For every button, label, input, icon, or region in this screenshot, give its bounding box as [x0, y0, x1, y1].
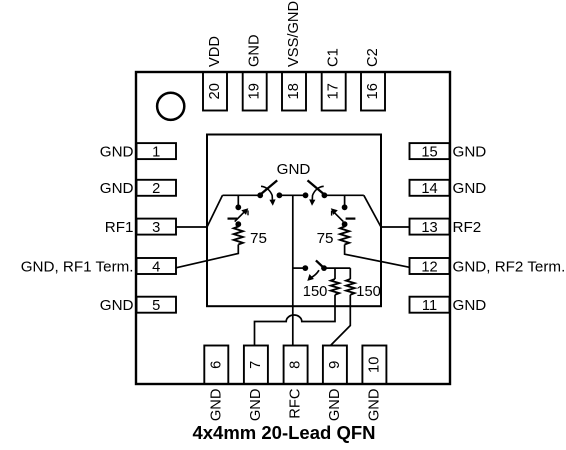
svg-text:14: 14 [421, 181, 437, 197]
wire term branch right segment [324, 267, 350, 269]
svg-text:75: 75 [250, 230, 267, 247]
wire top line RF2 side [324, 194, 363, 196]
svg-text:GND: GND [100, 180, 134, 197]
svg-text:GND, RF1 Term.: GND, RF1 Term. [21, 258, 134, 275]
shunt switch SW5 blade [316, 260, 323, 267]
series switch SW1 blade [261, 180, 277, 194]
pin 6 (GND) [204, 346, 228, 422]
svg-text:16: 16 [365, 83, 381, 99]
resistor 150 right [346, 279, 354, 295]
shunt switch SW3 blade tick [228, 218, 238, 220]
svg-text:GND: GND [277, 161, 311, 178]
resistor 75 (RF1 termination) [234, 224, 243, 244]
svg-text:GND: GND [453, 297, 487, 314]
pin 15 (GND) [410, 143, 487, 160]
svg-text:3: 3 [152, 220, 160, 236]
svg-text:GND: GND [247, 34, 263, 67]
wire term branch left segment [293, 267, 306, 269]
svg-text:VSS/GND: VSS/GND [286, 1, 302, 67]
pin 14 (GND) [410, 180, 487, 197]
svg-text:2: 2 [152, 181, 160, 197]
pin 10 (GND) [362, 346, 386, 422]
pin 13 (RF2) [410, 219, 482, 236]
wire 150 right top stub [349, 268, 351, 279]
svg-text:C2: C2 [365, 48, 381, 67]
svg-text:RF1: RF1 [105, 219, 134, 236]
pin 19 (GND) [243, 34, 267, 110]
wire top line center segment [279, 194, 305, 196]
svg-text:12: 12 [421, 259, 437, 275]
series switch SW1 arrow [261, 186, 276, 206]
svg-text:13: 13 [421, 220, 437, 236]
svg-text:RF2: RF2 [453, 219, 482, 236]
svg-text:GND: GND [366, 389, 382, 422]
shunt switch SW3 (RF1 term) contacts [235, 204, 241, 227]
svg-text:11: 11 [422, 298, 437, 314]
svg-text:5: 5 [152, 298, 160, 314]
shunt switch SW4 arrow [331, 208, 344, 221]
svg-text:GND: GND [248, 389, 264, 422]
wire right shunt drop [344, 195, 346, 207]
pin 2 (GND) [100, 180, 176, 197]
pin 5 (GND) [100, 297, 176, 314]
pin 18 (VSS/GND) [282, 1, 306, 111]
svg-text:18: 18 [286, 83, 302, 99]
inner die boundary [207, 135, 381, 307]
pin 11 (GND) [410, 297, 487, 314]
wire 75 left to pin 4 [176, 245, 238, 268]
wire 150 left top stub [334, 268, 336, 279]
svg-text:GND: GND [327, 389, 343, 422]
svg-text:C1: C1 [326, 48, 342, 67]
svg-text:GND: GND [453, 180, 487, 197]
svg-text:GND: GND [453, 143, 487, 160]
pin 1 (GND) [100, 143, 176, 160]
shunt switch SW4 (RF2 term) contacts [342, 204, 348, 227]
svg-text:150: 150 [356, 284, 381, 300]
svg-text:4x4mm 20-Lead QFN: 4x4mm 20-Lead QFN [192, 422, 375, 443]
pin 16 (C2) [361, 48, 385, 110]
pin 3 (RF1) [105, 219, 176, 236]
svg-text:GND: GND [208, 389, 224, 422]
wire left shunt drop [237, 195, 239, 207]
svg-text:19: 19 [247, 83, 263, 99]
wire 150 right to pin 9 [331, 295, 351, 346]
series switch SW1 (RF1) contacts [257, 192, 282, 198]
svg-text:4: 4 [152, 259, 160, 275]
outer package outline [136, 72, 450, 384]
svg-text:17: 17 [326, 83, 342, 99]
pin 9 (GND) [323, 346, 347, 422]
series switch SW2 arrow [309, 186, 324, 206]
svg-text:150: 150 [303, 284, 328, 300]
shunt switch SW4 blade tick [346, 218, 356, 220]
series switch SW2 (RF2) contacts [303, 192, 328, 198]
svg-text:1: 1 [152, 144, 160, 160]
svg-text:RFC: RFC [288, 388, 304, 419]
pin 8 (RFC) [284, 346, 308, 419]
resistor 150 left [331, 279, 339, 295]
wire RF1 stub pin3 to die [176, 226, 207, 228]
wire 150 left to pin 7 with hop over RFC [255, 295, 336, 346]
svg-text:VDD: VDD [207, 36, 223, 67]
pin 20 (VDD) [203, 36, 227, 111]
svg-text:GND: GND [100, 297, 134, 314]
series switch SW2 blade [308, 180, 324, 194]
wire RFC center line [292, 195, 294, 345]
svg-text:9: 9 [327, 361, 343, 369]
svg-text:GND, RF2 Term.: GND, RF2 Term. [453, 258, 566, 275]
pin 17 (C1) [322, 48, 346, 110]
svg-text:10: 10 [366, 357, 382, 373]
shunt switch SW3 arrow [235, 208, 249, 221]
svg-text:7: 7 [248, 361, 264, 369]
wire 75 right to pin 12 [345, 245, 410, 268]
wire RF1 diagonal to switch line [207, 195, 223, 227]
pin 4 (GND, RF1 Term.) [21, 258, 176, 275]
wire RF2 diagonal to die edge [364, 195, 381, 227]
pin 7 (GND) [244, 346, 268, 422]
wire RF2 stub die to pin13 [381, 226, 410, 228]
resistor 75 (RF2 termination) [340, 224, 349, 244]
pin 12 (GND, RF2 Term.) [410, 258, 566, 275]
svg-text:20: 20 [207, 83, 223, 99]
svg-text:GND: GND [100, 143, 134, 160]
svg-text:75: 75 [317, 230, 334, 247]
svg-text:15: 15 [421, 144, 437, 160]
svg-text:6: 6 [208, 361, 224, 369]
shunt switch SW5 (RFC term) contacts [302, 265, 327, 271]
shunt switch SW5 arrow [307, 270, 319, 281]
pin 1 indicator circle [157, 93, 184, 120]
svg-text:8: 8 [288, 361, 304, 369]
wire top line RF1 side [223, 194, 261, 196]
